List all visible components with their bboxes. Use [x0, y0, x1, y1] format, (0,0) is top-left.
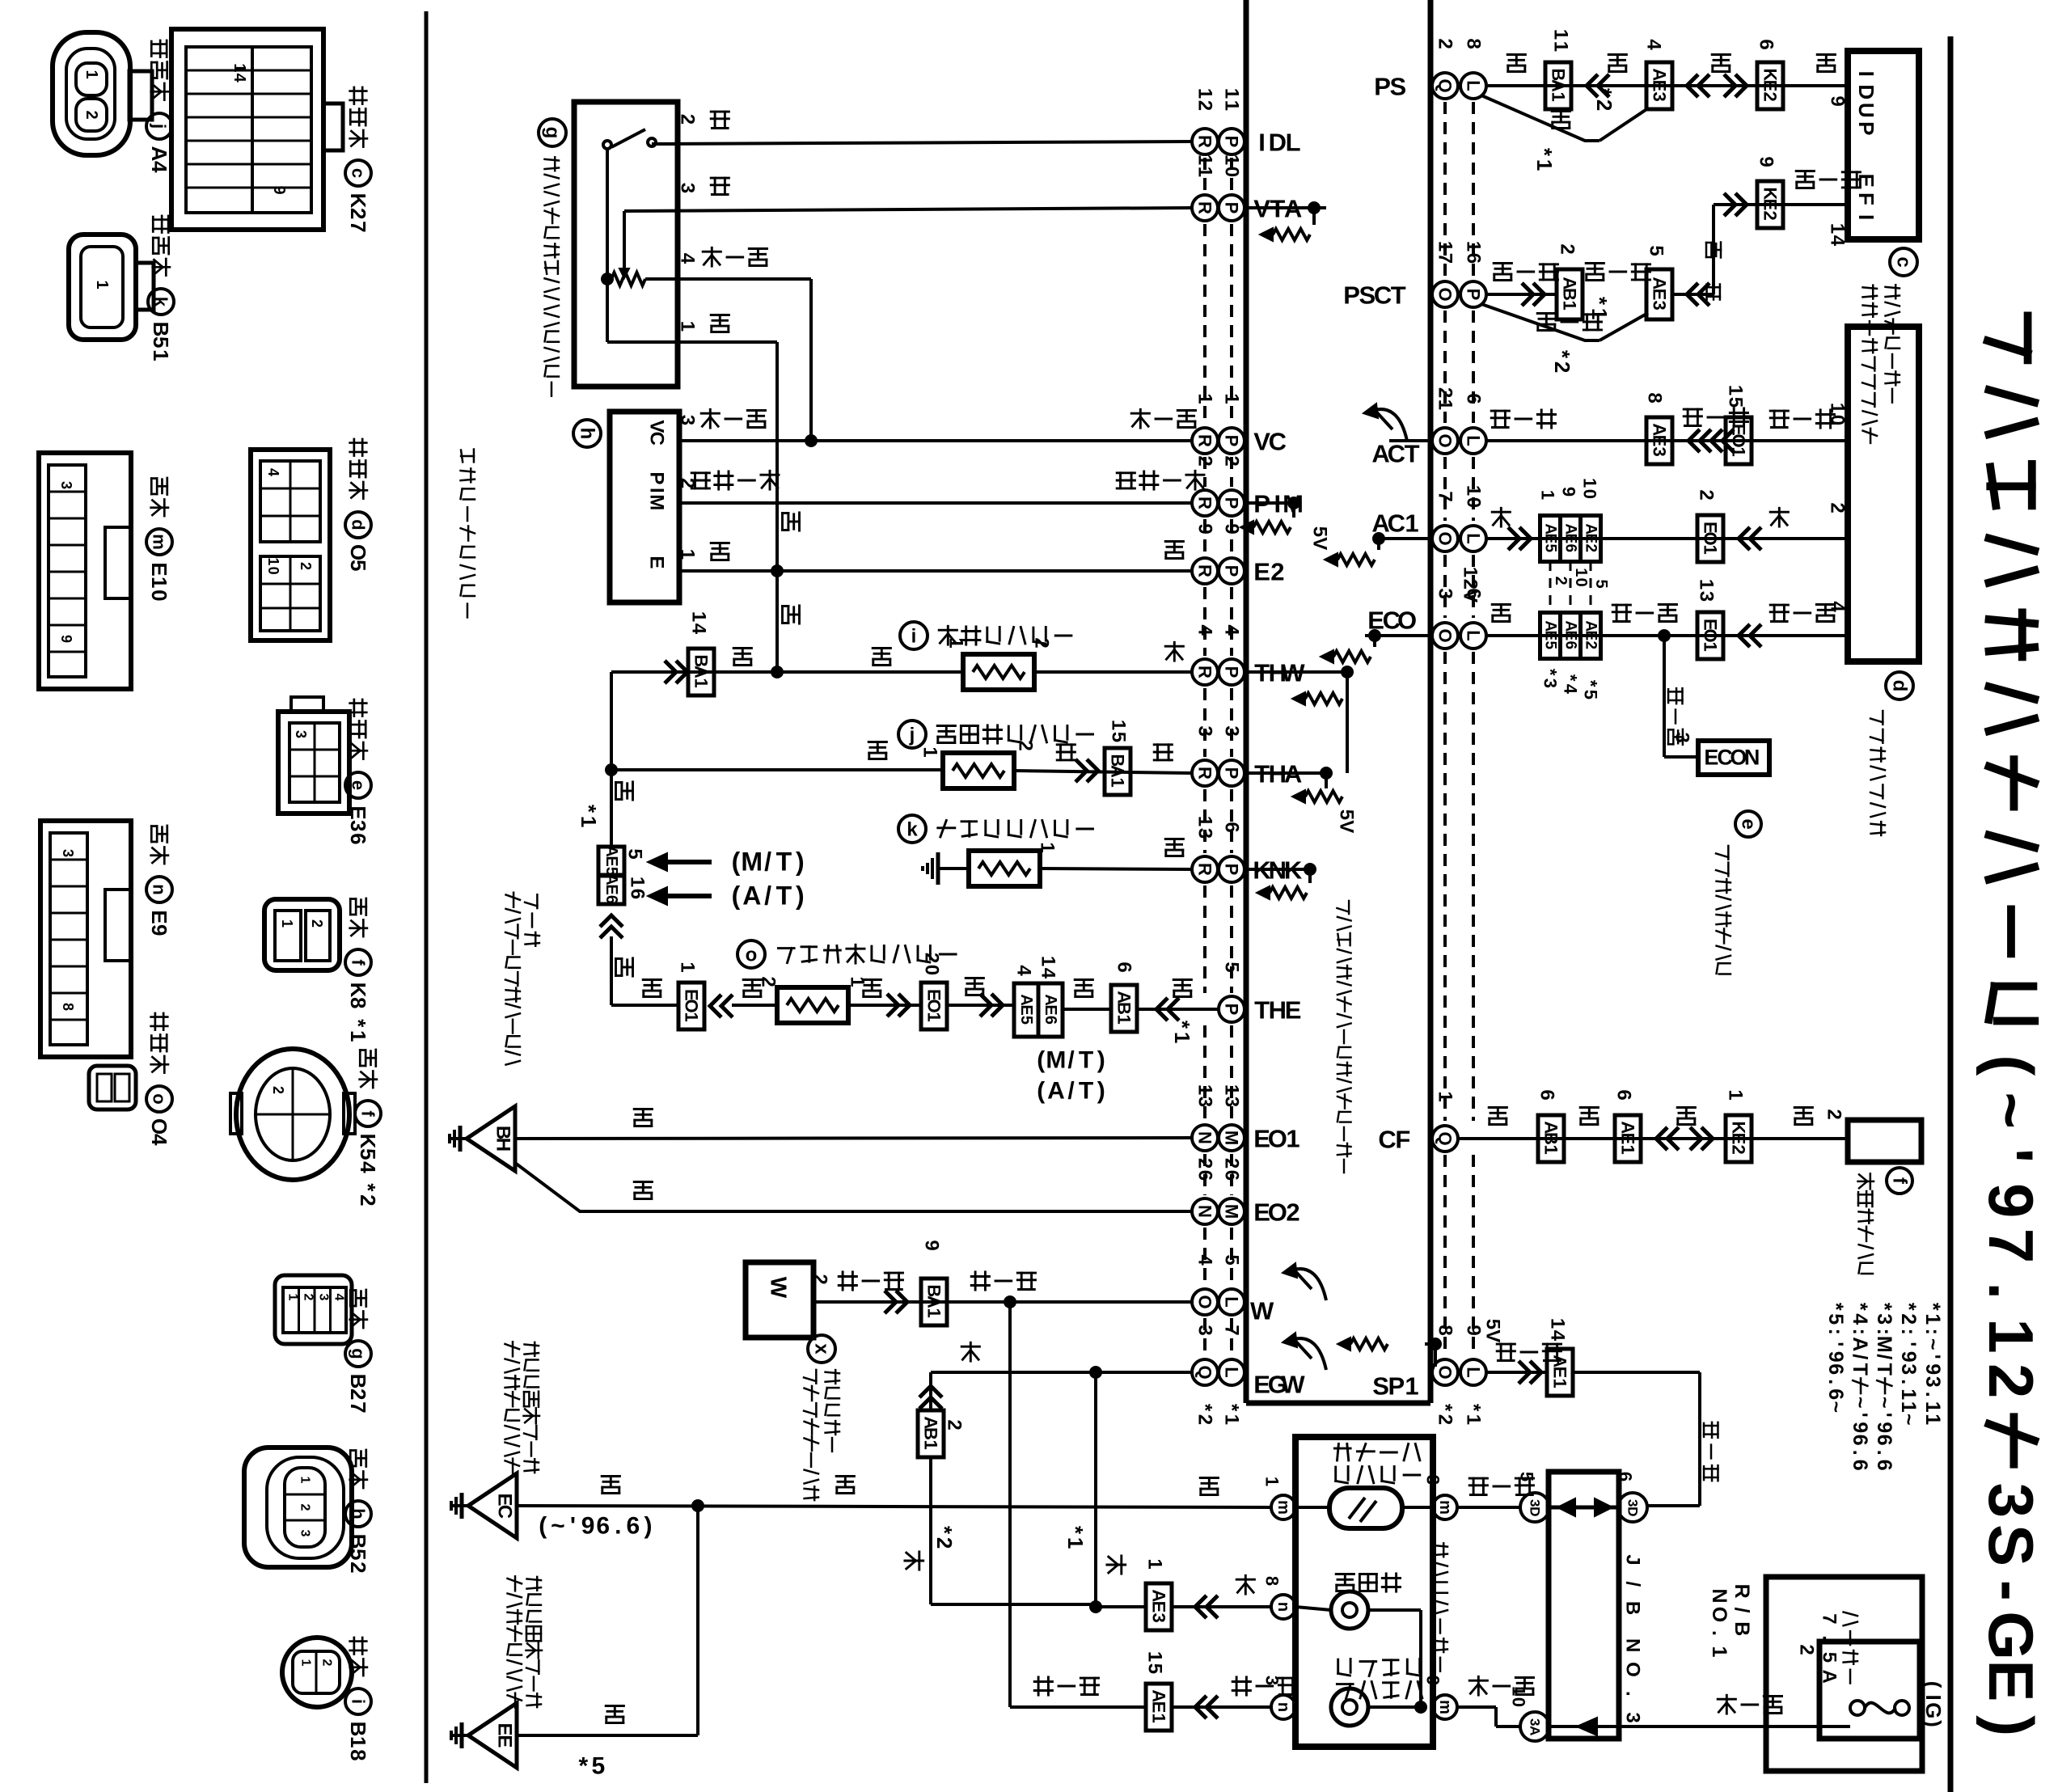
svg-text:O: O [1435, 287, 1456, 301]
svg-text:5: 5 [356, 1148, 380, 1160]
svg-text::: : [1849, 1329, 1871, 1335]
svg-text:E: E [1017, 1004, 1035, 1015]
svg-text:3: 3 [1650, 301, 1670, 311]
svg-text:P: P [1854, 121, 1878, 135]
svg-text:0: 0 [1580, 489, 1600, 499]
svg-text:3: 3 [1221, 725, 1243, 736]
svg-text:': ' [1873, 1413, 1895, 1418]
svg-text:/: / [1622, 1581, 1644, 1587]
svg-text:o: o [746, 945, 758, 966]
svg-text:K: K [346, 193, 370, 209]
svg-text:A: A [1819, 1669, 1840, 1683]
svg-text:1: 1 [286, 1294, 300, 1301]
svg-text:1: 1 [1701, 642, 1721, 652]
svg-text:0: 0 [1463, 497, 1485, 508]
svg-text:E: E [1149, 1701, 1169, 1714]
svg-text:2: 2 [1221, 1158, 1243, 1169]
svg-text:V: V [1336, 820, 1358, 833]
svg-text:4: 4 [147, 161, 171, 173]
svg-text:R: R [1195, 863, 1215, 876]
svg-text:d: d [1889, 680, 1911, 692]
svg-text:.: . [1622, 1691, 1644, 1697]
svg-text:D: D [1269, 128, 1287, 156]
svg-text:0: 0 [1572, 578, 1590, 587]
svg-text:/: / [1849, 1354, 1871, 1359]
svg-text:B: B [149, 322, 173, 337]
svg-text:0: 0 [1509, 1697, 1529, 1707]
svg-text:~: ~ [1897, 1414, 1920, 1426]
svg-text:P: P [1388, 1371, 1405, 1400]
svg-text:M: M [646, 494, 668, 510]
svg-text:~: ~ [1873, 1397, 1895, 1409]
svg-text:A: A [1849, 1337, 1871, 1351]
svg-text:N: N [1195, 1205, 1215, 1218]
svg-text:D: D [1625, 1507, 1641, 1516]
svg-text:2: 2 [1592, 99, 1616, 111]
svg-text:A: A [1528, 1726, 1543, 1735]
svg-text:1: 1 [346, 1736, 370, 1748]
svg-text:1: 1 [1560, 301, 1580, 311]
svg-text:6: 6 [1194, 1170, 1216, 1181]
svg-text:2: 2 [1696, 489, 1718, 500]
svg-text:5: 5 [1542, 640, 1559, 649]
svg-text:3: 3 [1423, 1475, 1443, 1485]
svg-text:P: P [1222, 565, 1242, 577]
svg-text:/: / [1067, 1047, 1075, 1074]
svg-text:6: 6 [1616, 1472, 1636, 1481]
svg-text:9: 9 [58, 635, 74, 643]
svg-text:6: 6 [1463, 393, 1485, 404]
svg-text:g: g [542, 127, 564, 139]
svg-text:B: B [346, 1534, 370, 1549]
svg-text:.: . [1824, 1379, 1847, 1384]
svg-text:9: 9 [1423, 1676, 1443, 1685]
svg-text:4: 4 [1561, 684, 1581, 695]
svg-text:1: 1 [1221, 154, 1243, 165]
svg-text:B: B [1114, 1002, 1135, 1015]
svg-text:Q: Q [1195, 1365, 1215, 1379]
svg-text:8: 8 [1262, 1576, 1283, 1586]
svg-text:7: 7 [346, 1401, 370, 1413]
svg-text:N: N [1744, 745, 1760, 769]
svg-text:9: 9 [1824, 1351, 1847, 1363]
svg-text:7: 7 [1819, 1613, 1840, 1624]
svg-text:*: * [1063, 1526, 1088, 1535]
svg-text:1: 1 [1194, 393, 1216, 404]
svg-text:O: O [1435, 433, 1456, 447]
svg-text:9: 9 [270, 185, 288, 194]
svg-text:1: 1 [1580, 478, 1600, 488]
svg-text:1: 1 [1262, 1477, 1283, 1486]
svg-text:m: m [1274, 1500, 1292, 1515]
svg-text:5: 5 [1542, 543, 1559, 552]
svg-text:H: H [1269, 995, 1287, 1024]
svg-text:O: O [1729, 433, 1749, 447]
svg-text:f: f [349, 959, 369, 966]
svg-text:6: 6 [1756, 39, 1777, 49]
svg-text:W: W [1250, 1296, 1274, 1325]
svg-text:2: 2 [1729, 1145, 1749, 1155]
svg-text:~: ~ [1824, 1401, 1847, 1413]
svg-text:O: O [1622, 1662, 1644, 1677]
svg-text:6: 6 [1824, 1363, 1847, 1375]
svg-text:E: E [346, 805, 370, 819]
svg-text:f: f [1889, 1177, 1911, 1185]
svg-text:L: L [1286, 128, 1301, 156]
svg-text:m: m [1436, 1700, 1454, 1714]
svg-text:U: U [1854, 103, 1878, 118]
svg-text:1: 1 [1725, 385, 1747, 395]
svg-text:1: 1 [1194, 167, 1216, 177]
svg-text:E: E [1542, 534, 1559, 544]
svg-text:1: 1 [279, 919, 295, 928]
svg-text:2: 2 [346, 1388, 370, 1400]
svg-text:3: 3 [1194, 725, 1216, 736]
svg-text:R: R [1195, 434, 1215, 447]
svg-text:P: P [1222, 497, 1242, 509]
svg-text:O: O [924, 999, 944, 1012]
svg-text:1: 1 [1541, 1145, 1561, 1155]
svg-text:M: M [741, 847, 763, 876]
svg-text:L: L [1222, 1296, 1242, 1307]
svg-text:.: . [1849, 1450, 1871, 1456]
svg-text:W: W [1281, 1370, 1305, 1398]
svg-text:3: 3 [1194, 1325, 1216, 1335]
svg-text:1: 1 [1221, 100, 1243, 111]
svg-text:1: 1 [919, 746, 941, 757]
svg-text:5: 5 [592, 1753, 606, 1780]
svg-text:.: . [1976, 1282, 2047, 1300]
svg-text:): ) [1097, 1078, 1105, 1105]
svg-text:W: W [767, 1277, 792, 1299]
svg-text:E: E [1650, 435, 1670, 447]
svg-text:*: * [1532, 148, 1557, 157]
svg-text:T: T [776, 847, 792, 876]
svg-text:4: 4 [1643, 39, 1665, 50]
svg-text:1: 1 [1108, 778, 1128, 788]
svg-text:F: F [1395, 1125, 1410, 1153]
svg-text:3: 3 [346, 820, 370, 831]
svg-text:E: E [147, 910, 171, 923]
svg-text:E: E [1760, 199, 1781, 211]
svg-text:3: 3 [677, 415, 699, 425]
svg-text:V: V [1460, 590, 1481, 602]
svg-text:(: ( [732, 847, 741, 876]
svg-text::: : [1824, 1329, 1847, 1335]
svg-text:1: 1 [1463, 485, 1485, 496]
svg-text:R: R [1195, 201, 1215, 214]
svg-text:k: k [151, 297, 171, 307]
svg-text:K: K [346, 983, 370, 998]
svg-text:3: 3 [1921, 1376, 1944, 1388]
svg-text:1: 1 [924, 1012, 944, 1022]
svg-text:*: * [1194, 1404, 1216, 1412]
svg-text:P: P [1343, 281, 1360, 309]
svg-text:2: 2 [1435, 387, 1456, 398]
svg-text:A: A [1549, 79, 1569, 92]
svg-text:g: g [349, 1348, 369, 1359]
svg-text:2: 2 [346, 1562, 370, 1573]
svg-text:1: 1 [1509, 1686, 1529, 1696]
svg-text:1: 1 [1435, 1091, 1456, 1101]
svg-text:I: I [1258, 128, 1266, 156]
svg-text:1: 1 [149, 349, 173, 361]
svg-text:R: R [1195, 564, 1215, 577]
svg-text:R: R [1195, 666, 1215, 678]
svg-text:2: 2 [809, 1274, 831, 1284]
svg-text:T: T [1391, 281, 1406, 309]
svg-text:3: 3 [1897, 1363, 1920, 1375]
svg-text:O: O [1268, 1124, 1287, 1152]
svg-text:A: A [691, 666, 712, 678]
svg-text:.: . [1873, 1450, 1895, 1456]
svg-text:1: 1 [688, 611, 710, 622]
svg-text:1: 1 [1921, 1401, 1944, 1413]
svg-text:1: 1 [1463, 241, 1485, 251]
svg-text:L: L [1464, 1367, 1484, 1377]
svg-text:7: 7 [346, 221, 370, 232]
svg-text:3: 3 [1650, 92, 1670, 102]
svg-text:L: L [1464, 435, 1484, 446]
svg-text:*: * [1897, 1303, 1920, 1311]
svg-text:8: 8 [1644, 392, 1666, 403]
svg-text:4: 4 [677, 253, 699, 264]
svg-text:5: 5 [1646, 245, 1667, 256]
svg-text:P: P [1222, 202, 1242, 214]
svg-text:5: 5 [1517, 1472, 1537, 1481]
svg-text:m: m [150, 534, 170, 550]
svg-text:h: h [577, 428, 598, 440]
svg-text:E: E [494, 1723, 516, 1736]
svg-text:F: F [1854, 192, 1878, 205]
svg-text:P: P [1222, 435, 1242, 447]
svg-text:(: ( [1976, 1054, 2047, 1076]
svg-text:6: 6 [596, 1513, 610, 1540]
svg-text:1: 1 [1063, 1537, 1088, 1549]
svg-text:O: O [1195, 1295, 1215, 1308]
svg-text:1: 1 [1538, 490, 1558, 500]
svg-text:6: 6 [1463, 253, 1485, 264]
svg-text:1: 1 [677, 962, 699, 972]
svg-text:2: 2 [1552, 576, 1570, 585]
svg-text:E: E [1562, 534, 1579, 544]
svg-text:3: 3 [293, 730, 309, 738]
svg-text:L: L [1464, 533, 1484, 543]
svg-text:5: 5 [1309, 526, 1331, 537]
svg-text:1: 1 [1194, 154, 1216, 165]
svg-text::: : [1897, 1329, 1920, 1335]
svg-text:2: 2 [1823, 1109, 1845, 1119]
svg-text:3: 3 [1696, 591, 1718, 602]
svg-text:6: 6 [1849, 1460, 1871, 1471]
svg-text:6: 6 [1221, 822, 1243, 832]
svg-text:B: B [1541, 1132, 1561, 1145]
svg-text:T: T [1079, 1047, 1093, 1074]
svg-text:.: . [1819, 1635, 1840, 1641]
svg-text:8: 8 [346, 1749, 370, 1760]
svg-text:2: 2 [921, 953, 943, 963]
svg-text:): ) [796, 881, 805, 910]
svg-text:1: 1 [1405, 1371, 1418, 1400]
svg-text:1: 1 [1550, 29, 1572, 40]
svg-text:0: 0 [921, 965, 943, 975]
svg-text:3: 3 [1625, 1499, 1641, 1507]
svg-text:3: 3 [1671, 732, 1693, 742]
svg-text:(: ( [1037, 1078, 1045, 1105]
svg-text:5: 5 [1725, 397, 1747, 408]
svg-text:*: * [1921, 1303, 1944, 1311]
svg-text:9: 9 [1194, 523, 1216, 534]
svg-text:3: 3 [1540, 678, 1561, 688]
svg-text:1: 1 [1532, 159, 1557, 171]
svg-text:4: 4 [147, 1134, 171, 1146]
svg-text:N: N [1195, 1131, 1215, 1144]
svg-text:O: O [1701, 531, 1721, 545]
svg-text:K: K [356, 1134, 380, 1149]
svg-text:1: 1 [924, 1308, 944, 1318]
svg-text:G: G [1976, 1611, 2047, 1660]
svg-text:*: * [356, 1183, 380, 1192]
svg-text:6: 6 [627, 1513, 640, 1540]
svg-text:7: 7 [1221, 1325, 1243, 1335]
svg-text:5: 5 [1824, 1313, 1847, 1325]
svg-text:S: S [1976, 1524, 2047, 1566]
svg-text:2: 2 [932, 1537, 957, 1549]
svg-text:P: P [1222, 666, 1242, 678]
svg-text:2: 2 [1976, 1363, 2047, 1398]
svg-text:E: E [602, 884, 620, 894]
svg-text:5: 5 [1017, 1016, 1035, 1025]
svg-text:4: 4 [265, 468, 281, 476]
svg-text:4: 4 [1037, 968, 1059, 979]
svg-text:i: i [911, 626, 917, 648]
svg-text:E: E [1760, 80, 1781, 92]
svg-text:~: ~ [1849, 1397, 1871, 1409]
svg-text:E: E [1976, 1659, 2047, 1701]
svg-text:2: 2 [1221, 455, 1243, 466]
svg-text:1: 1 [1286, 1124, 1299, 1152]
svg-text:O: O [1397, 606, 1417, 634]
svg-text:P: P [1464, 289, 1484, 301]
svg-text:E: E [1618, 1133, 1638, 1145]
svg-text:2: 2 [758, 976, 780, 987]
svg-text:e: e [1738, 818, 1760, 829]
svg-text:1: 1 [1114, 1015, 1135, 1025]
svg-text:5: 5 [1221, 1254, 1243, 1265]
svg-text:1: 1 [147, 577, 171, 588]
svg-text:o: o [150, 1093, 170, 1104]
svg-text:2: 2 [1194, 455, 1216, 466]
svg-text:7: 7 [1976, 1228, 2047, 1263]
svg-text:1: 1 [93, 280, 111, 289]
svg-text:6: 6 [1824, 1388, 1847, 1400]
svg-text:1: 1 [346, 1030, 370, 1042]
svg-text:8: 8 [1463, 38, 1485, 49]
svg-text:~: ~ [551, 1513, 565, 1540]
svg-text:2: 2 [1897, 1313, 1920, 1325]
svg-text:1: 1 [1221, 1414, 1243, 1425]
svg-text:1: 1 [1194, 88, 1216, 99]
svg-text:1: 1 [1701, 545, 1721, 555]
svg-text:O: O [1435, 628, 1456, 642]
svg-text:5: 5 [1336, 809, 1358, 820]
svg-text:5: 5 [1108, 732, 1130, 742]
svg-text:4: 4 [1013, 965, 1035, 976]
svg-text:9: 9 [1897, 1351, 1920, 1363]
svg-text:1: 1 [1194, 816, 1216, 826]
svg-text:E: E [494, 1735, 516, 1748]
svg-text:1: 1 [82, 70, 100, 78]
svg-text:8: 8 [60, 1003, 76, 1011]
svg-text:n: n [150, 884, 170, 894]
svg-text:C: C [494, 1505, 516, 1519]
svg-text:5: 5 [1581, 690, 1601, 699]
svg-text:V: V [1309, 537, 1331, 550]
svg-text:I: I [1854, 214, 1878, 220]
svg-text:1: 1 [1550, 41, 1572, 52]
svg-text:/: / [1730, 1608, 1753, 1613]
svg-text:1: 1 [265, 557, 281, 565]
svg-text:.: . [1921, 1392, 1944, 1397]
svg-text:h: h [349, 1508, 369, 1519]
svg-text:R: R [1195, 135, 1215, 148]
svg-text:1: 1 [1725, 1089, 1747, 1100]
svg-text:': ' [1921, 1355, 1944, 1359]
svg-text:1: 1 [1435, 241, 1456, 251]
svg-text:*: * [1170, 1021, 1194, 1029]
svg-text:*: * [577, 805, 601, 814]
svg-text:B: B [1730, 1621, 1753, 1636]
svg-text:2: 2 [346, 208, 370, 219]
svg-text:): ) [644, 1513, 653, 1540]
svg-text:1: 1 [627, 877, 649, 887]
svg-text:1: 1 [1405, 509, 1418, 537]
svg-text:R: R [1195, 497, 1215, 509]
svg-text:1: 1 [691, 678, 712, 688]
svg-text:4: 4 [1221, 624, 1243, 636]
svg-text:2: 2 [82, 110, 100, 119]
svg-text:': ' [1976, 1148, 2047, 1164]
svg-text:9: 9 [1976, 1183, 2047, 1218]
svg-text:T: T [776, 881, 792, 910]
svg-text:6: 6 [627, 889, 649, 899]
svg-text:E: E [1729, 1133, 1749, 1145]
svg-text:E: E [1583, 534, 1599, 544]
svg-text:x: x [811, 1343, 833, 1355]
svg-text:O: O [147, 1118, 171, 1135]
svg-text:N: N [1708, 1588, 1730, 1603]
svg-text:1: 1 [1708, 1646, 1730, 1658]
svg-text:4: 4 [230, 74, 248, 83]
svg-text:G: G [1921, 1702, 1946, 1718]
svg-text:(: ( [1037, 1047, 1045, 1074]
svg-text:N: N [1622, 1638, 1644, 1652]
svg-text:2: 2 [1194, 1158, 1216, 1169]
svg-text:C: C [1388, 439, 1405, 467]
svg-text:9: 9 [1873, 1422, 1895, 1433]
svg-text:5: 5 [1592, 579, 1610, 588]
svg-text:C: C [1374, 281, 1392, 309]
svg-text:2: 2 [302, 1294, 315, 1301]
svg-text:3: 3 [1149, 1613, 1169, 1623]
svg-text:2: 2 [677, 114, 699, 125]
svg-text:): ) [1097, 1047, 1105, 1074]
svg-text:1: 1 [1572, 568, 1590, 577]
svg-text:A: A [147, 146, 171, 162]
svg-text:1: 1 [1549, 92, 1569, 102]
svg-text:2: 2 [1194, 100, 1216, 111]
svg-text:3: 3 [1194, 1097, 1216, 1107]
